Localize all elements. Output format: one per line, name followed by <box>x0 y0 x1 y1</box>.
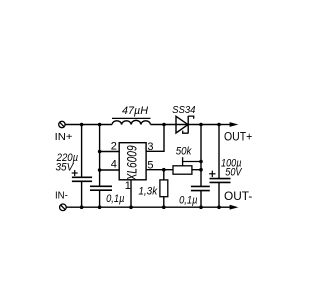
svg-text:50V: 50V <box>225 166 243 178</box>
resistor R2 1,3k <box>160 170 168 208</box>
junction top rail x164 (pin3) <box>162 123 166 127</box>
arrow OUT+ <box>219 122 238 127</box>
capacitor C1 220u 35V <box>72 125 92 208</box>
junction bottom rail x99.6 <box>98 205 102 209</box>
op IC U1 XL6009 <box>119 143 146 181</box>
junction 50k right node <box>199 168 203 172</box>
plus sign C1 <box>72 170 78 176</box>
wire top rail (diode to 100u cap) <box>188 124 219 126</box>
wire pin 1 (down to bottom rail) <box>130 180 132 207</box>
svg-text:1,3k: 1,3k <box>138 186 157 198</box>
capacitor C4 100u 50V <box>210 125 231 208</box>
svg-text:XL6009: XL6009 <box>124 145 139 181</box>
junction wiper node <box>199 160 203 164</box>
inductor L1 47uH <box>112 118 151 124</box>
svg-text:35V: 35V <box>56 161 75 173</box>
svg-text:50k: 50k <box>176 146 192 158</box>
svg-text:OUT-: OUT- <box>224 191 252 203</box>
wire pin 3 (up to top rail) <box>146 125 164 152</box>
svg-text:4: 4 <box>111 159 117 171</box>
wire pin 4 <box>100 169 120 171</box>
diode D1 SS34 (schottky) <box>176 116 194 133</box>
svg-text:0,1µ: 0,1µ <box>106 193 124 205</box>
svg-text:47µH: 47µH <box>122 105 148 117</box>
terminal IN- <box>60 204 67 211</box>
junction bottom rail x81 <box>80 205 84 209</box>
junction bottom rail x164 <box>162 205 166 209</box>
wire top rail left (IN+ to inductor) <box>65 124 112 126</box>
plus sign C4 <box>209 171 215 177</box>
capacitor C3 0,1u (right) <box>191 125 210 208</box>
svg-text:0,1µ: 0,1µ <box>179 194 197 206</box>
junction top rail x219 <box>217 123 221 127</box>
svg-text:IN-: IN- <box>55 191 68 202</box>
svg-text:SS34: SS34 <box>172 104 196 116</box>
wire pin 2 <box>100 151 120 153</box>
junction pin2 node <box>98 150 102 154</box>
wire bottom rail <box>66 206 219 208</box>
svg-text:IN+: IN+ <box>55 132 73 143</box>
junction top rail x201 <box>199 123 203 127</box>
arrow OUT- <box>219 205 238 210</box>
terminal IN+ <box>59 121 65 127</box>
resistor R1 50k trimmer <box>173 157 201 174</box>
svg-text:1: 1 <box>125 180 131 192</box>
svg-text:2: 2 <box>111 141 117 153</box>
wire pin 5 <box>146 169 173 171</box>
svg-text:5: 5 <box>147 159 153 171</box>
svg-text:3: 3 <box>147 141 153 153</box>
junction pin4 node <box>98 168 102 172</box>
junction top rail x81 <box>80 123 84 127</box>
wire top rail (inductor to diode) <box>151 124 189 126</box>
junction bottom rail x201 <box>199 205 203 209</box>
junction bottom rail x131 (pin1) <box>129 205 133 209</box>
junction bottom rail x219 <box>217 205 221 209</box>
svg-text:OUT+: OUT+ <box>224 131 253 143</box>
junction pin5 / 1,3k node <box>162 168 166 172</box>
capacitor C2 0,1u (left) <box>90 125 112 208</box>
junction top rail x99.6 <box>98 123 102 127</box>
